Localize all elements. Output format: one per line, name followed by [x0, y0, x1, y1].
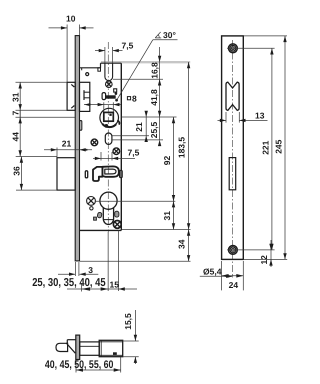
- svg-text:12: 12: [259, 255, 269, 265]
- svg-text:25,5: 25,5: [149, 121, 159, 138]
- latch opening: [226, 82, 239, 110]
- top screw hole: [229, 44, 238, 53]
- front tab below latch: [80, 121, 82, 131]
- svg-text:41,8: 41,8: [149, 89, 159, 106]
- svg-text:7,5: 7,5: [122, 40, 134, 50]
- row 40,45,50,55,60: [76, 357, 121, 373]
- euro cylinder profile: [100, 192, 117, 224]
- dim square-8: [84, 102, 121, 112]
- faceplate bar: [76, 335, 80, 359]
- latch channel: [105, 47, 113, 63]
- svg-text:30°: 30°: [163, 30, 176, 40]
- dim 15,5: [123, 310, 139, 364]
- bottom screw hole: [229, 246, 238, 255]
- pin: [86, 73, 89, 76]
- svg-text:21: 21: [62, 138, 72, 148]
- small fixing holes: [97, 212, 102, 218]
- screw S3: [113, 148, 120, 155]
- svg-text:31: 31: [162, 211, 172, 221]
- dim 36 (deadbolt): [16, 157, 57, 191]
- dim 92 and 31 (column x=173.5): [96, 117, 176, 230]
- latch nose: [56, 343, 68, 351]
- svg-text:221: 221: [260, 140, 270, 154]
- svg-text:36: 36: [12, 166, 22, 176]
- angle 30deg: [155, 32, 161, 38]
- svg-text:8: 8: [132, 93, 137, 103]
- svg-text:15: 15: [110, 279, 120, 289]
- svg-text:245: 245: [274, 139, 284, 153]
- screw S1 top: [106, 81, 113, 88]
- svg-text:7,5: 7,5: [128, 147, 140, 157]
- screw S5: [91, 139, 98, 146]
- left dims 31 / 7 / 44: [16, 82, 76, 156]
- svg-text:183,5: 183,5: [176, 137, 186, 159]
- dims 221 and 245: [227, 36, 287, 260]
- cylinder screw hole capsule: [105, 133, 112, 144]
- tab pin left: [85, 149, 87, 151]
- lock case outline: [80, 63, 122, 230]
- screw S4 bottom right (bold): [113, 221, 121, 229]
- dim 7,5 (top latch guide): [95, 50, 123, 52]
- dim 24: [222, 261, 244, 290]
- dim 7,5 (hook): [93, 152, 135, 161]
- svg-text:Ø5,4: Ø5,4: [203, 266, 222, 276]
- dim 12: [270, 240, 272, 267]
- deadbolt head: [57, 158, 75, 190]
- svg-text:7: 7: [11, 111, 21, 116]
- backset row: 25,30,35,40,45 and 15: [67, 231, 137, 292]
- dim 183,5 and 34 (column x=188.6): [80, 62, 191, 261]
- faceplate (main view): [75, 36, 79, 261]
- wire: centerline vertical through follower/cylinder: [107, 42, 109, 232]
- svg-text:40, 45, 50, 55, 60: 40, 45, 50, 55, 60: [45, 359, 114, 371]
- gray extension band at case top: [101, 61, 190, 63]
- svg-text:10: 10: [66, 14, 76, 24]
- svg-text:21: 21: [134, 122, 144, 132]
- case sections: [80, 342, 100, 355]
- svg-text:24: 24: [229, 280, 239, 290]
- deadbolt slot (front view): [229, 158, 236, 190]
- small square pin block: [114, 89, 117, 92]
- svg-text:3: 3: [88, 265, 93, 275]
- svg-text:92: 92: [162, 156, 172, 166]
- right dim column 16,8 / 41,8 / 25,5: [112, 47, 177, 140]
- svg-text:44: 44: [11, 132, 21, 142]
- dim 10 (top): [49, 25, 94, 83]
- svg-text:13: 13: [255, 110, 265, 120]
- hook lever (dark mechanism): [93, 166, 119, 181]
- dim 13: [218, 112, 268, 123]
- svg-text:16,8: 16,8: [150, 62, 160, 79]
- svg-text:25, 30, 35, 40, 45: 25, 30, 35, 40, 45: [32, 277, 106, 289]
- svg-text:31: 31: [11, 92, 21, 102]
- follower (square spindle hub): [100, 108, 119, 128]
- dim 21 (deadbolt protrusion): [44, 148, 92, 158]
- screw S2 left of cylinder: [87, 197, 96, 206]
- svg-text:34: 34: [176, 239, 186, 249]
- latch bolt head (outside): [67, 82, 75, 110]
- latch bolt body (inside case): [80, 82, 90, 111]
- dim 21 vertical (follower to cyl hole): [112, 111, 149, 142]
- leader 30deg: [117, 40, 153, 100]
- svg-text:15,5: 15,5: [123, 313, 133, 330]
- stop bolt: head + bar + pin: [102, 93, 106, 100]
- dim 3 (faceplate thickness): [58, 262, 98, 276]
